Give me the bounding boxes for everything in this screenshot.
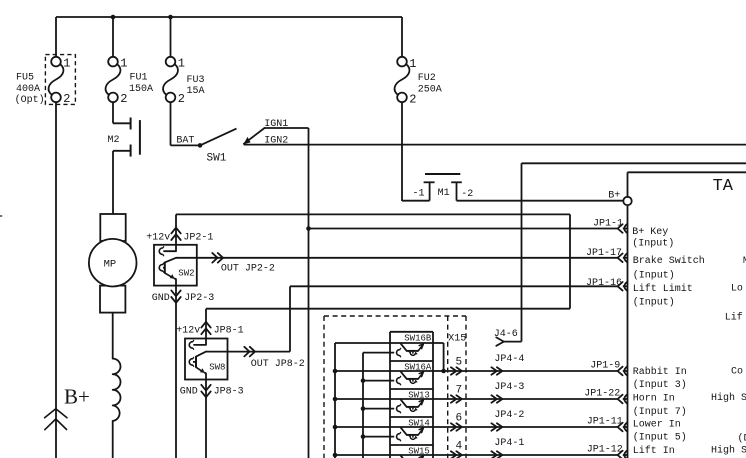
svg-text:(Input): (Input) [633,269,675,281]
svg-text:High S: High S [711,392,746,404]
svg-text:SW8: SW8 [209,362,225,372]
junction dot FU3 feed [168,15,173,20]
SW8 +12v lead [205,309,207,339]
svg-text:JP8-1: JP8-1 [214,325,244,336]
solid state switch SW8 box [185,339,228,380]
wire: FU1 to contactor M2 [112,102,114,123]
pin JP1-12 [618,451,623,458]
svg-text:JP1-11: JP1-11 [587,416,623,427]
SW16A cell divider [390,360,433,362]
SW8 transistor [195,356,197,368]
svg-text:Brake Switch: Brake Switch [633,255,705,267]
svg-text:4: 4 [455,441,462,453]
svg-text:JP1-12: JP1-12 [587,444,623,455]
svg-text:2: 2 [178,92,185,106]
fuse FU5 (optional, dashed outline) [45,55,75,105]
X15 pin 7 chevrons [451,395,456,402]
wire: SW8 out to JP1-16 [206,351,290,353]
svg-text:(Opt): (Opt) [15,94,45,106]
svg-text:2: 2 [63,92,70,106]
wire: IGN1 continues down [308,229,310,458]
wire: FU3 down to SW1 [170,102,172,145]
contactor coil M1 [425,173,460,175]
svg-text:400A: 400A [16,84,40,95]
collector bus wire [334,343,336,458]
svg-text:FU1: FU1 [130,73,148,84]
SW14 cell divider [390,416,433,418]
collector bus junction dot 2 [333,397,338,402]
collector bus junction dot 1 [333,369,338,374]
wire: top supply bus [56,16,402,18]
svg-text:Lif: Lif [725,311,743,323]
junction dot IGN1/JP1-1 [306,226,311,231]
SW2 transistor [164,262,166,274]
svg-text:SW2: SW2 [178,268,194,278]
svg-text:M1: M1 [438,188,450,199]
svg-text:JP8-3: JP8-3 [214,386,244,397]
svg-text:JP4-1: JP4-1 [494,438,524,449]
wire: FU2 down to M1 coil [401,102,403,201]
connector X15 dashed line [447,316,449,458]
JP8-3 pin chevrons [201,385,210,391]
wire: coil to bottom edge [112,421,114,458]
svg-text:FU2: FU2 [418,73,436,84]
svg-text:JP4-3: JP4-3 [494,382,524,393]
junction dot SW16B/row5 [441,369,446,374]
wire: +12v JP2-1 run [176,213,570,215]
B+ node circle on TA controller [623,197,631,205]
svg-text:2: 2 [120,92,127,106]
switch SW1 pivot dot [198,143,203,148]
svg-text:JP4-4: JP4-4 [494,354,524,365]
SW2 base terminal hook [159,265,162,271]
base bus junction dot 3 [361,434,366,439]
X15 pin 5 chevrons [451,367,456,374]
svg-text:High Spe: High Spe [711,444,746,456]
JP2-1 pin chevrons [171,228,180,234]
X15 pin 6 chevrons [451,423,456,430]
svg-text:1: 1 [63,56,70,70]
wire: SW2 out to JP1-17 [176,257,617,259]
svg-text:B+: B+ [64,384,90,408]
wire row X15 pin 6 [335,426,617,428]
B+ arrowheads on battery lead [45,409,67,418]
switch SW1 arm [200,129,237,146]
svg-text:JP1-1: JP1-1 [593,218,623,229]
svg-text:Lift In: Lift In [633,445,675,457]
collector bus junction dot 3 [333,425,338,430]
solid state switch SW2 box [154,245,197,286]
pin JP1-16 [618,282,623,291]
svg-text:GND: GND [152,293,170,304]
OUT JP2-2 pin chevrons [212,253,217,263]
pin JP1-9 [618,367,623,376]
X15 pin 4 chevrons [451,451,456,458]
svg-text:-2: -2 [461,189,473,200]
SW15 cell divider [390,444,433,446]
svg-text:FU3: FU3 [187,75,205,86]
pin JP1-17 [618,254,623,263]
wire: FU5 down to B+ stud [55,102,57,458]
svg-text:MP: MP [104,258,117,270]
svg-text:Horn In: Horn In [633,393,675,404]
SW8 +12v terminal hook [189,342,192,348]
inductor field coil [113,359,121,421]
wire IGN1 [265,127,309,129]
svg-text:JP1-9: JP1-9 [590,360,620,371]
svg-text:JP2-1: JP2-1 [183,233,213,244]
pin JP1-11 [618,423,623,432]
contactor M2 [130,118,132,130]
svg-text:FU5: FU5 [16,73,34,84]
svg-text:1: 1 [409,57,416,71]
base bus junction dot 2 [361,406,366,411]
svg-text:JP2-3: JP2-3 [184,293,214,304]
collector bus junction dot 4 [333,453,338,458]
junction dot FU1 feed [111,15,116,20]
wire: bus to FU5 [55,17,57,57]
motor MP [100,214,125,241]
svg-text:JP4-2: JP4-2 [494,410,524,421]
svg-text:(Input): (Input) [633,297,675,309]
svg-text:OUT JP2-2: OUT JP2-2 [221,264,275,275]
wire: J4-6 to right edge [522,162,746,164]
SW8 GND lead [205,380,207,458]
wire: bus to FU3 [170,17,172,57]
svg-text:Co: Co [731,367,743,378]
svg-text:B+ Key: B+ Key [632,227,668,238]
wire: bus to FU1 [112,17,114,57]
SW2 +12v lead [175,214,177,244]
JP4-4 pin chevrons [491,367,496,374]
svg-text:15A: 15A [187,86,205,97]
svg-text:JP1-16: JP1-16 [586,278,622,289]
svg-text:-1: -1 [413,189,425,200]
OUT JP8-2 pin chevrons [244,347,249,357]
svg-text:6: 6 [455,413,462,425]
SW8 base terminal hook [189,359,192,365]
SW13 cell divider [390,388,433,390]
wire: bus corner to FU2 [401,17,403,57]
svg-text:TA: TA [713,177,734,196]
svg-text:1: 1 [178,56,185,70]
svg-text:1: 1 [120,56,127,70]
fuse FU1 [108,57,118,67]
JP4-2 pin chevrons [491,423,496,430]
wire: M2 to motor MP [112,151,114,214]
wire: JP1-1 to TA [309,228,618,230]
transistor SW16A [363,380,394,382]
svg-text:2: 2 [409,93,416,107]
svg-text:(Input): (Input) [632,237,674,249]
fuse FU3 [166,57,176,67]
svg-text:(Input 7): (Input 7) [633,406,687,418]
base bus wire [362,353,364,458]
wire: SW16B output [335,342,444,344]
wire row X15 pin 7 [335,398,617,400]
svg-text:Rabbit In: Rabbit In [633,366,687,378]
svg-text:Lower In: Lower In [633,419,681,430]
edge tick left [0,215,2,217]
pin JP1-1 [618,224,623,233]
svg-text:+12v: +12v [146,233,170,244]
wire row X15 pin 5 [335,370,617,372]
JP8-1 pin chevrons [201,322,210,328]
svg-text:250A: 250A [418,85,442,96]
connector pin J4-6 chevron [496,337,504,345]
wire: MP to field coil [112,313,114,359]
svg-text:BAT: BAT [176,135,194,146]
svg-text:5: 5 [455,357,462,369]
dashed harness outline [324,315,466,317]
svg-text:Lo: Lo [731,283,743,294]
svg-text:(Input 3): (Input 3) [633,379,687,391]
JP4-3 pin chevrons [491,395,496,402]
svg-text:M2: M2 [108,135,120,146]
svg-text:OUT JP8-2: OUT JP8-2 [251,359,305,370]
svg-text:+12v: +12v [176,325,200,336]
svg-text:Lift Limit: Lift Limit [633,283,693,295]
svg-text:GND: GND [180,386,198,397]
svg-text:B+: B+ [608,190,620,201]
wire row X15 pin 4 [335,454,617,456]
svg-text:J4-6: J4-6 [494,329,518,340]
svg-text:X15: X15 [448,334,466,345]
pin JP1-22 [618,395,623,404]
transistor SW16B [363,352,394,354]
svg-text:7: 7 [455,385,462,397]
svg-text:SW1: SW1 [207,152,227,164]
svg-text:SW16B: SW16B [404,333,432,343]
wire IGN2 [244,144,746,146]
base bus junction dot 1 [361,378,366,383]
svg-text:150A: 150A [129,84,153,95]
svg-text:JP1-17: JP1-17 [586,248,622,259]
TA controller box [628,171,746,173]
JP2-3 pin chevrons [171,290,180,296]
transistor SW13 [363,408,394,410]
svg-text:(D: (D [738,433,746,445]
JP4-1 pin chevrons [491,451,496,458]
transistor SW14 [363,436,394,438]
fuse FU2 [397,57,407,67]
svg-text:(Input 5): (Input 5) [633,432,687,444]
SW1 contact arrowhead [243,137,250,144]
SW2 +12v terminal hook [159,248,162,254]
svg-text:JP1-22: JP1-22 [584,388,620,399]
switch module box [390,331,433,333]
SW2 GND lead [175,286,177,458]
